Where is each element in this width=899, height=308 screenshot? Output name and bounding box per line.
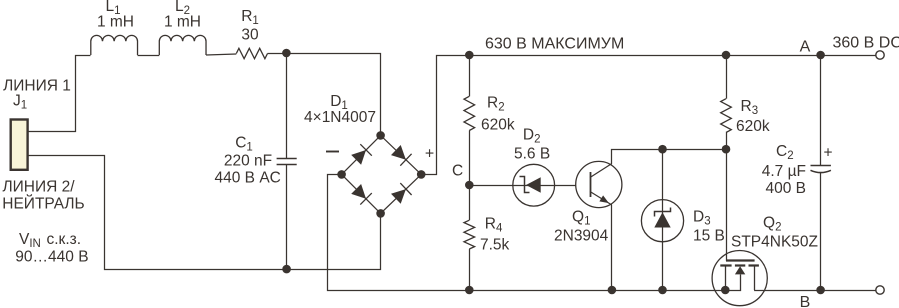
svg-text:VIN: VIN [19, 231, 41, 250]
svg-text:C1: C1 [235, 135, 253, 154]
svg-text:4×1N4007: 4×1N4007 [304, 109, 376, 126]
svg-text:J1: J1 [13, 93, 27, 112]
svg-text:620k: 620k [736, 118, 770, 135]
svg-text:7.5k: 7.5k [480, 237, 510, 254]
svg-text:B: B [800, 294, 811, 308]
svg-text:360 В DC: 360 В DC [833, 35, 899, 52]
svg-text:1 mH: 1 mH [164, 14, 201, 31]
svg-text:30: 30 [241, 27, 259, 44]
svg-text:5.6 В: 5.6 В [514, 146, 550, 163]
svg-text:A: A [800, 39, 811, 56]
svg-text:R1: R1 [241, 8, 259, 27]
svg-text:ЛИНИЯ 2/: ЛИНИЯ 2/ [2, 179, 75, 196]
svg-text:+: + [425, 146, 434, 163]
svg-text:R2: R2 [487, 95, 505, 114]
svg-text:Q2: Q2 [763, 215, 781, 234]
svg-text:15 В: 15 В [693, 228, 725, 245]
svg-text:D2: D2 [523, 127, 541, 146]
svg-text:1 mH: 1 mH [97, 14, 134, 31]
svg-text:2N3904: 2N3904 [554, 228, 609, 245]
svg-text:C2: C2 [776, 143, 794, 162]
svg-text:220 nF: 220 nF [224, 153, 272, 170]
svg-text:R4: R4 [485, 216, 503, 235]
svg-text:440 В AC: 440 В AC [215, 170, 281, 187]
svg-text:630 В МАКСИМУМ: 630 В МАКСИМУМ [485, 36, 624, 53]
svg-text:C: C [452, 163, 463, 180]
svg-text:D3: D3 [693, 209, 711, 228]
svg-text:R3: R3 [741, 98, 759, 117]
svg-text:90…440 В: 90…440 В [15, 249, 88, 266]
svg-text:620k: 620k [481, 117, 515, 134]
svg-text:Q1: Q1 [572, 209, 590, 228]
svg-text:с.к.з.: с.к.з. [47, 231, 82, 248]
svg-text:+: + [823, 145, 832, 162]
svg-text:STP4NK50Z: STP4NK50Z [731, 234, 818, 251]
svg-text:400 В: 400 В [765, 180, 806, 197]
svg-text:4.7 µF: 4.7 µF [762, 163, 806, 180]
svg-text:НЕЙТРАЛЬ: НЕЙТРАЛЬ [2, 195, 84, 213]
